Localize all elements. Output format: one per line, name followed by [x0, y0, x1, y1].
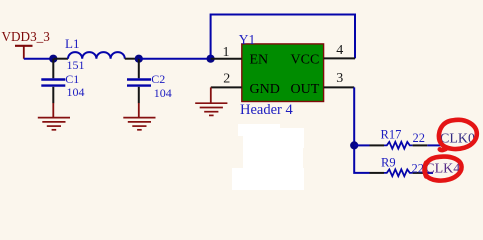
- capacitor C1 pin 1 (black lead): [52, 59, 54, 79]
- inductor L1 pin 1 (black lead): [54, 58, 68, 60]
- node D junction dot (R17 branch): [350, 141, 358, 149]
- component Y1 (Header 4) green body: [242, 44, 324, 102]
- background sheet: [0, 0, 483, 190]
- capacitor C2 pin 1 (black lead): [138, 59, 140, 79]
- svg-text:EN: EN: [250, 52, 269, 67]
- resistor R9 pin 1 (black lead): [370, 172, 385, 174]
- svg-text:151: 151: [67, 58, 85, 72]
- svg-text:VCC: VCC: [291, 52, 320, 67]
- capacitor C2 pin 2 (black lead): [138, 87, 140, 103]
- svg-text:OUT: OUT: [291, 82, 320, 97]
- svg-text:4: 4: [336, 43, 343, 58]
- resistor R17 pin 2 (black lead): [413, 144, 428, 146]
- annotation: red circle around CLK0: [439, 120, 477, 150]
- svg-text:VDD3_3: VDD3_3: [2, 29, 51, 44]
- capacitor C1 pin 2 (black lead): [52, 87, 54, 103]
- capacitor C2 plates: [127, 80, 151, 86]
- wire: R17 to CLK0: [427, 144, 442, 146]
- white patch (erased area): [232, 124, 304, 190]
- wire: top rail (node C up, across, down to pin 4): [211, 15, 355, 59]
- svg-text:2: 2: [223, 72, 230, 87]
- svg-text:22: 22: [412, 161, 425, 175]
- svg-text:GND: GND: [250, 82, 280, 97]
- resistor R17 zigzag: [384, 142, 413, 149]
- ground (below pin 2): [195, 87, 227, 115]
- node A junction dot (C1 / L1): [49, 55, 57, 63]
- svg-text:R17: R17: [381, 128, 402, 142]
- svg-text:Y1: Y1: [239, 32, 256, 47]
- wire: node B to node C: [139, 58, 211, 60]
- pin 3 OUT (black lead): [324, 86, 355, 88]
- svg-text:L1: L1: [65, 36, 79, 51]
- svg-text:C1: C1: [65, 72, 79, 86]
- inductor L1 coil: [68, 52, 125, 59]
- svg-text:104: 104: [67, 85, 85, 99]
- svg-text:1: 1: [223, 45, 230, 60]
- wire: R9 to CLK4: [427, 172, 433, 174]
- ground (below C1): [38, 103, 70, 130]
- resistor R9 pin 2 (black lead): [413, 172, 428, 174]
- node B junction dot (C2): [135, 55, 143, 63]
- svg-text:22: 22: [413, 131, 426, 145]
- node C junction dot (to top rail / pin 1): [207, 55, 215, 63]
- pin 4 VCC (black lead): [324, 57, 355, 59]
- inductor L1 pin 2 (black lead): [125, 58, 137, 60]
- ground (below C2): [123, 103, 155, 130]
- power bar symbol: [15, 46, 33, 59]
- capacitor C1 plates: [41, 80, 65, 86]
- resistor R17 pin 1 (black lead): [370, 144, 385, 146]
- resistor R9 zigzag: [384, 169, 413, 176]
- wire: node D to R17: [354, 144, 369, 146]
- svg-text:R9: R9: [381, 155, 396, 169]
- wire: VDD rail to node A: [24, 58, 54, 60]
- svg-text:Header 4: Header 4: [240, 102, 293, 118]
- annotation: red circle around CLK4: [425, 157, 462, 181]
- svg-text:3: 3: [336, 71, 343, 86]
- svg-text:C2: C2: [151, 72, 165, 86]
- wire: pin 3 down to resistor branch: [354, 87, 369, 172]
- pin 1 EN (black lead): [211, 58, 242, 60]
- svg-text:104: 104: [154, 86, 172, 100]
- pin 2 GND (black lead): [211, 86, 242, 88]
